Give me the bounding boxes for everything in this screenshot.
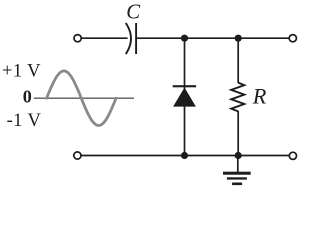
- ground symbol bar 3 (narrowest): [232, 183, 242, 186]
- ground symbol bar 2: [227, 177, 247, 179]
- svg-text:-1 V: -1 V: [7, 111, 42, 131]
- capacitor C right plate: [135, 23, 137, 54]
- junction dot: node B (resistor top, on top rail): [235, 35, 242, 42]
- diode D1 cathode bar: [173, 85, 196, 87]
- diode D1 anode triangle (pointing up): [173, 88, 196, 107]
- resistor R zigzag: [231, 83, 244, 112]
- junction dot: diode bottom on bottom rail: [181, 152, 188, 159]
- output terminal bottom-right (open circle): [289, 152, 296, 159]
- svg-text:C: C: [126, 1, 140, 23]
- output terminal top-right (open circle): [289, 35, 296, 42]
- waveform axis (0 V reference line): [34, 97, 134, 99]
- input sine waveform (1 cycle, gray): [47, 71, 116, 126]
- wire: ground stem: [237, 156, 239, 173]
- wire: resistor branch top: [237, 38, 239, 83]
- wire: bottom rail: [81, 155, 289, 157]
- svg-text:+1 V: +1 V: [2, 62, 41, 82]
- wire: resistor branch bottom: [237, 111, 239, 156]
- wire: diode branch vertical: [184, 38, 186, 155]
- svg-text:0: 0: [23, 86, 32, 106]
- capacitor C left curved plate: [126, 23, 131, 54]
- wire: top rail left segment (input terminal to capacitor): [81, 37, 127, 39]
- input terminal bottom-left (open circle): [74, 152, 81, 159]
- input terminal top-left (open circle): [74, 35, 81, 42]
- junction dot: resistor bottom / ground node on bottom rail: [235, 152, 242, 159]
- wire: top rail right segment (capacitor to output terminal): [137, 37, 289, 39]
- ground symbol bar 1 (widest): [223, 172, 251, 175]
- svg-text:R: R: [252, 84, 267, 109]
- junction dot: node A (diode top, on top rail): [181, 35, 188, 42]
